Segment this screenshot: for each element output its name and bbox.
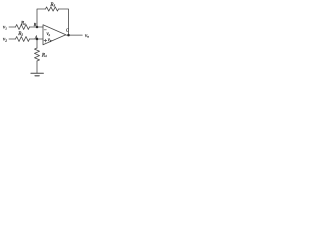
resistor R3 xyxy=(46,7,59,11)
node C xyxy=(67,34,70,37)
wire node B up to feedback rail xyxy=(37,9,46,27)
svg-text:R1: R1 xyxy=(20,20,26,26)
node A xyxy=(36,38,39,41)
svg-text:R4: R4 xyxy=(41,52,47,58)
svg-text:R3: R3 xyxy=(49,2,55,8)
op-amp U1 xyxy=(43,25,66,45)
op-amp plus sign xyxy=(44,39,47,42)
wire op-amp output to vo xyxy=(66,34,83,36)
node B xyxy=(36,26,39,29)
resistor R2 xyxy=(16,37,30,42)
svg-text:A: A xyxy=(34,34,38,39)
wire node A down to R4 xyxy=(36,39,38,48)
svg-text:vn: vn xyxy=(47,32,51,37)
svg-text:v2: v2 xyxy=(3,37,7,43)
resistor R1 xyxy=(16,25,30,30)
svg-text:v1: v1 xyxy=(3,25,7,31)
svg-text:vo: vo xyxy=(85,33,89,39)
ground xyxy=(31,72,44,74)
wire input v2 to R2 xyxy=(9,38,16,40)
wire R2 to node A and op-amp xyxy=(30,38,44,40)
svg-text:B: B xyxy=(34,22,37,27)
svg-text:R2: R2 xyxy=(17,31,23,37)
wire R4 to ground xyxy=(36,61,38,73)
op-amp minus sign xyxy=(44,29,46,31)
wire input v1 to R1 xyxy=(9,26,16,28)
svg-text:vp: vp xyxy=(48,38,52,43)
resistor R4 xyxy=(35,48,40,61)
wire R3 to output node C xyxy=(59,9,69,35)
wire R1 to node B and op-amp xyxy=(30,26,44,28)
